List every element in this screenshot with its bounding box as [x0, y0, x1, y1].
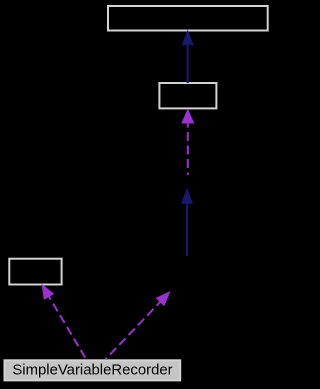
- inheritance arrow (blue solid) middle box to top box : shaft: [187, 44, 189, 83]
- usage arrow head (purple) to left box: [42, 285, 53, 299]
- node box left (empty, border only): [9, 259, 61, 285]
- inheritance arrow head (blue) lower: [182, 189, 193, 203]
- usage arrow (purple dashed) SimpleVariableRecorder to left box : shaft: [49, 297, 86, 360]
- inheritance arrow head (blue): [182, 31, 193, 45]
- usage arrow head (purple): [182, 110, 194, 123]
- usage arrow (purple dashed) SimpleVariableRecorder to right invisible node : shaft: [106, 302, 161, 360]
- usage arrow (purple dashed) up into middle box : shaft: [187, 123, 189, 175]
- node box top (empty, border only): [108, 6, 268, 31]
- svg-text:SimpleVariableRecorder: SimpleVariableRecorder: [12, 362, 172, 378]
- node box middle (empty, border only): [159, 83, 216, 108]
- node box SimpleVariableRecorder (gray filled): [5, 360, 181, 380]
- inheritance arrow (blue solid) lower : shaft: [186, 203, 188, 256]
- usage arrow head (purple) right: [156, 292, 169, 305]
